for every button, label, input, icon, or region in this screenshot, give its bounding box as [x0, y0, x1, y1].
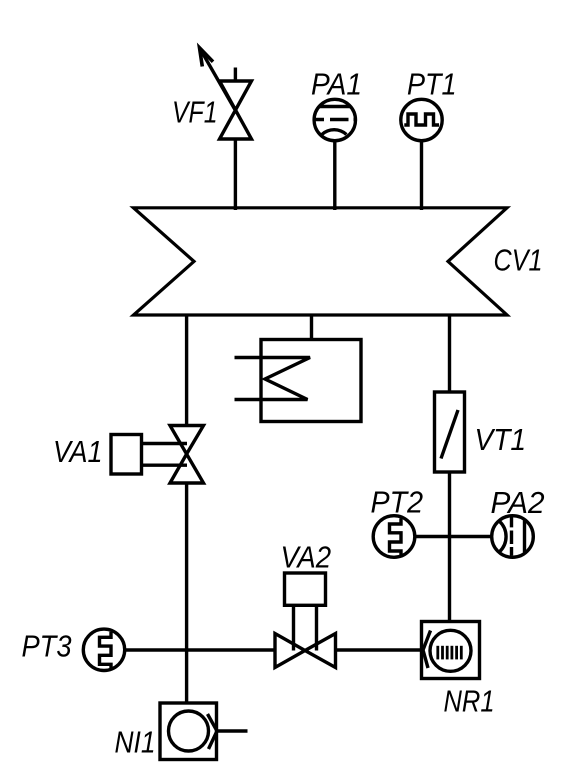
instrument PT2	[373, 516, 415, 558]
svg-text:NI1: NI1	[115, 725, 156, 760]
wire PA1 to CV1 top	[333, 140, 336, 210]
wire CV1 bottom to valve VA1	[185, 314, 188, 427]
indicator NI1	[160, 703, 248, 760]
svg-text:CV1: CV1	[494, 243, 543, 278]
svg-text:NR1: NR1	[444, 684, 495, 719]
valve VA1	[111, 426, 204, 484]
wire VF1 valve bottom to CV1 top	[234, 138, 237, 210]
vessel CV1	[134, 208, 508, 315]
instrument PT3	[83, 629, 124, 670]
svg-text:PT2: PT2	[371, 485, 424, 520]
instrument PA1	[314, 99, 356, 140]
svg-text:VA1: VA1	[53, 434, 103, 469]
recorder NR1	[422, 622, 480, 679]
wire VT1 to NR1	[448, 471, 451, 622]
svg-text:VA2: VA2	[281, 540, 332, 575]
valve VA2	[275, 573, 336, 668]
wire PT2 to PA2	[415, 535, 492, 538]
wire CV1 bottom to VT1	[448, 314, 451, 394]
heater box	[261, 340, 361, 422]
wire CV1 bottom to heater box	[310, 314, 313, 341]
svg-text:PT3: PT3	[22, 629, 72, 664]
wire VA2 to NR1	[336, 648, 424, 651]
heater element	[235, 358, 311, 400]
wire PT1 to CV1 top	[420, 140, 423, 210]
svg-text:PA1: PA1	[311, 67, 362, 102]
wire PT3 to valve VA2	[125, 648, 276, 651]
wire VA1 through junction to NI1	[185, 482, 188, 704]
svg-text:PT1: PT1	[407, 67, 457, 102]
instrument PT1	[401, 99, 442, 140]
svg-text:VF1: VF1	[172, 95, 218, 130]
valve VF1	[200, 48, 252, 139]
svg-text:PA2: PA2	[491, 485, 545, 520]
transducer VT1	[435, 392, 465, 472]
instrument PA2	[492, 516, 534, 558]
svg-text:VT1: VT1	[475, 422, 527, 457]
